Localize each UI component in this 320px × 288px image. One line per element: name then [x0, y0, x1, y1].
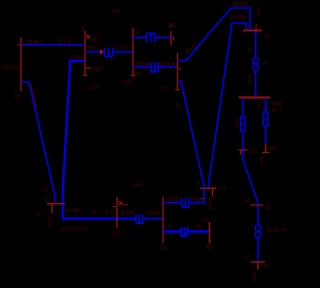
inductor L2	[147, 33, 155, 42]
svg-text:Ω#: Ω#	[160, 246, 167, 252]
svg-text:###: ###	[134, 183, 143, 189]
svg-text:2: 2	[82, 27, 85, 33]
inductor L6	[182, 198, 189, 207]
svg-text:Ω#: Ω#	[176, 103, 181, 109]
wire L9 to ground	[257, 238, 259, 262]
svg-text:1ΩΠ: 1ΩΠ	[136, 62, 147, 68]
svg-text:ΩΩ: ΩΩ	[250, 149, 258, 155]
wire R1 down	[242, 131, 244, 159]
svg-text:ΩΩ-ΩΩ-ΩΩΩ: ΩΩ-ΩΩ-ΩΩΩ	[60, 227, 87, 232]
svg-text:8YΩN: 8YΩN	[116, 46, 134, 52]
svg-text:Ω#Ω: Ω#Ω	[260, 156, 265, 166]
svg-text:ΩΔΩ: ΩΔΩ	[256, 7, 261, 17]
svg-text:47 ΩΩ: 47 ΩΩ	[57, 40, 72, 46]
svg-text:ΔΩ8: ΔΩ8	[134, 71, 143, 76]
wire Q5 to L7 thick	[163, 230, 181, 233]
inductor L3	[151, 63, 158, 73]
svg-text:# Ω: # Ω	[218, 186, 226, 192]
svg-text:ΩΩ: ΩΩ	[44, 198, 51, 203]
svg-text:Ω#: Ω#	[15, 94, 22, 100]
inductor L5	[136, 214, 143, 223]
wire Q2 to L2	[133, 37, 147, 39]
wire branch y23 to bar	[208, 23, 246, 188]
svg-text:Ω#: Ω#	[256, 102, 261, 108]
Q4 tick	[113, 206, 116, 208]
svg-text:£: £	[255, 23, 259, 30]
wire Q3 emitter diagonal down	[178, 81, 205, 203]
wire bar to R1	[242, 98, 244, 117]
inductor L9 vertical	[256, 225, 261, 232]
svg-text:ΩΩΩΩ.: ΩΩΩΩ.	[48, 214, 53, 228]
collector bar node	[200, 187, 216, 189]
svg-text:R for ##: R for ##	[268, 228, 287, 234]
wire L5 to Q5	[143, 218, 163, 220]
svg-text:#: #	[247, 255, 250, 261]
wire Q3 collector diagonal to top right	[178, 8, 251, 61]
svg-text:+|: +|	[158, 34, 162, 40]
svg-text:6ΩΠ: 6ΩΠ	[159, 62, 170, 68]
wire Q5 to L6	[163, 202, 182, 204]
svg-text:>: >	[172, 62, 175, 68]
wire V1 lower diagonal	[21, 82, 55, 204]
svg-text:Ω#: Ω#	[272, 108, 278, 113]
svg-text:ΩΩ: ΩΩ	[91, 36, 99, 42]
wire R2 down	[265, 126, 267, 144]
R2 pin stub	[265, 144, 267, 153]
svg-text:ΩΩ#Ω: ΩΩ#Ω	[146, 211, 160, 217]
svg-text:#Ω: #Ω	[206, 245, 213, 251]
C4 pin tick	[172, 36, 174, 40]
transistor Q1 body	[84, 31, 86, 76]
wire bottom horizontal to Q4	[62, 218, 136, 220]
resistor R2	[264, 112, 268, 126]
svg-text:Δ#.8#: Δ#.8#	[65, 208, 79, 214]
transistor Q5 body	[162, 197, 164, 243]
svg-text:ΩΩ1: ΩΩ1	[122, 80, 132, 86]
diagonal R1 wire to L9	[243, 159, 258, 225]
wire net1 top	[21, 44, 85, 46]
junction tick on R1 wire	[239, 149, 248, 151]
supply bar top	[243, 30, 262, 32]
svg-text:# Ω: # Ω	[160, 87, 168, 93]
wire Q2 to L3	[133, 66, 151, 68]
wire bar to R2	[265, 98, 267, 112]
svg-text:#ΩΩ: #ΩΩ	[93, 67, 103, 73]
voltage source V1 body	[20, 38, 22, 92]
wire Q1 to L1	[85, 51, 104, 53]
faint red diagonal remnant	[31, 84, 37, 108]
svg-text:8: 8	[204, 218, 207, 224]
svg-text:8ΩΩΩ: 8ΩΩΩ	[233, 2, 248, 8]
svg-text:2ΩΩb: 2ΩΩb	[230, 15, 245, 21]
svg-text:2ΩΥ: 2ΩΥ	[112, 233, 122, 239]
svg-text:ΔΩHF: ΔΩHF	[121, 211, 135, 217]
svg-text:ΩΩΩ: ΩΩΩ	[252, 272, 257, 282]
transistor Q2 body	[132, 28, 134, 76]
Q4 arrow mark	[119, 202, 123, 206]
Q1 arrow mark	[87, 35, 91, 39]
svg-text:ΩΩ: ΩΩ	[268, 146, 276, 152]
transistor Q3 body	[177, 53, 179, 90]
svg-text:Ω.8: Ω.8	[90, 85, 98, 91]
wire L3 to Q3	[158, 66, 177, 68]
svg-text:+|: +|	[168, 224, 172, 230]
inductor L7	[181, 227, 188, 236]
ground G1	[47, 204, 65, 213]
ground G3	[251, 262, 265, 270]
svg-text:# \: # \	[263, 61, 269, 67]
corner tick	[201, 198, 205, 200]
svg-text:ΔΩ: ΔΩ	[169, 23, 176, 29]
wire L1 to Q2	[113, 51, 133, 53]
svg-text:Ω#Ω: Ω#Ω	[234, 119, 239, 129]
svg-text:#Ω1Ω8: #Ω1Ω8	[1, 65, 19, 71]
wire Q1 base diagonal down	[63, 61, 85, 218]
svg-text:#8#Ω: #8#Ω	[86, 46, 98, 52]
svg-text:3 kΩ.: 3 kΩ.	[190, 197, 202, 203]
svg-text:Ω#: Ω#	[248, 47, 253, 53]
Q1 pin tick	[85, 67, 91, 69]
svg-text:RY: RY	[113, 9, 121, 15]
inductor L8 vertical	[253, 58, 258, 65]
svg-text:ΩΩΩΩ: ΩΩΩΩ	[208, 197, 213, 211]
transistor Q4 body	[116, 197, 118, 228]
svg-text:#): #)	[245, 199, 250, 205]
wire L8 to mid bar	[255, 71, 257, 98]
svg-text:ΩΩ#: ΩΩ#	[248, 74, 253, 84]
inductor L1	[105, 48, 113, 57]
capacitor C11 body	[209, 222, 211, 244]
junction dot	[255, 30, 257, 32]
wire bar to L8	[255, 31, 257, 58]
svg-text:>: >	[146, 62, 149, 68]
svg-text:(1°: (1°	[36, 212, 42, 217]
svg-text:+k: +k	[196, 224, 202, 230]
wire L2 to C4	[155, 37, 171, 39]
svg-text:#Ω: #Ω	[264, 34, 271, 40]
svg-text:L#: L#	[264, 264, 270, 270]
resistor R1	[241, 117, 245, 131]
node stem	[212, 188, 214, 196]
capacitor C4 body	[170, 31, 172, 45]
svg-text:2u: 2u	[265, 205, 271, 211]
wire L7 to C11 thick	[188, 230, 210, 233]
svg-text:1Γ: 1Γ	[136, 30, 142, 36]
mid supply bar	[239, 96, 270, 98]
tick on L9 wire	[251, 204, 264, 206]
